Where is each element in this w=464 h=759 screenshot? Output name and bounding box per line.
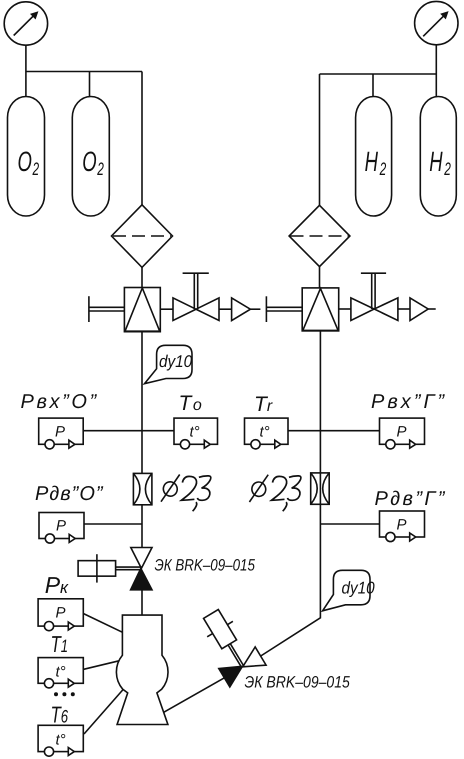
wire V2 to hand valve HV2: [339, 308, 351, 310]
svg-text:2: 2: [32, 159, 39, 179]
check valve CV1: [232, 298, 261, 321]
wire HV1 to check valve CV1: [219, 308, 232, 310]
solenoid valve EK1 (O2): [78, 548, 152, 590]
instrument T1: [38, 658, 83, 688]
flange connection left of V1: [89, 296, 125, 322]
wire filter F2 to valve V2: [319, 267, 321, 288]
orifice restrictor right: [311, 473, 330, 504]
svg-text:Рвх”Г”: Рвх”Г”: [371, 391, 447, 413]
label phi 2,3 right: [249, 475, 301, 512]
svg-text:Н: Н: [365, 146, 379, 177]
cylinder H2-2: [420, 97, 456, 217]
svg-text:Р: Р: [55, 424, 65, 441]
instrument To: [174, 418, 218, 449]
wire main O2 line down: [141, 332, 143, 548]
wire H2 manifold: [320, 73, 437, 75]
instrument Tg: [245, 418, 289, 449]
pressure regulator valve V1: [124, 288, 160, 332]
cylinder O2-2: [72, 97, 109, 217]
svg-text:Рвх”О”: Рвх”О”: [21, 391, 99, 413]
hand valve HV1: [173, 273, 219, 320]
wire Tg to Pvx"G": [288, 430, 380, 432]
filter F1: [112, 205, 173, 268]
callout dy10 right: [323, 570, 376, 611]
svg-text:2: 2: [379, 159, 386, 179]
svg-text:t°: t°: [56, 732, 66, 749]
svg-text:Р∂в”О”: Р∂в”О”: [35, 483, 104, 505]
svg-text:Р: Р: [397, 424, 407, 441]
svg-text:Р: Р: [397, 517, 407, 534]
instrument Pdv"O": [39, 513, 84, 544]
svg-text:ЭК BRK–09–015: ЭК BRK–09–015: [155, 557, 256, 575]
instrument Pdv"G": [380, 511, 425, 542]
svg-text:Р: Р: [56, 605, 66, 622]
orifice restrictor left: [133, 473, 152, 504]
wire EK1 to engine: [141, 589, 143, 615]
svg-text:ЭК BRK–09–015: ЭК BRK–09–015: [245, 674, 351, 692]
instrument Pvx"G": [380, 418, 425, 449]
wire stub to cylinder O2-1: [25, 72, 27, 98]
ellipsis dots: [54, 692, 75, 696]
wire O2 manifold: [26, 71, 142, 73]
wire H2 main line down: [261, 331, 321, 656]
filter F2: [289, 205, 350, 266]
svg-text:t°: t°: [56, 664, 66, 681]
svg-text:2: 2: [97, 159, 104, 179]
hand valve HV2: [351, 273, 398, 320]
wire V1 to hand valve HV1: [160, 308, 173, 310]
wire Pk to chamber: [83, 614, 122, 633]
wire HV2 to check valve CV2: [398, 308, 410, 310]
wire Pdv"O" to main line: [84, 523, 142, 525]
check valve CV2: [410, 298, 436, 321]
solenoid valve EK2 (H2): [193, 603, 266, 687]
wire manifold down to filter F1: [141, 72, 143, 206]
svg-text:Р: Р: [56, 518, 66, 535]
wire stub to cylinder O2-2: [89, 72, 91, 98]
label phi 2,3 left: [161, 475, 211, 512]
callout dy10 left: [145, 345, 193, 383]
svg-text:Р∂в”Г”: Р∂в”Г”: [375, 488, 447, 510]
svg-text:Н: Н: [429, 146, 443, 177]
cylinder H2-1: [356, 97, 392, 217]
wire gauge-left to manifold: [25, 45, 27, 71]
svg-text:О: О: [82, 146, 96, 177]
svg-text:dy10: dy10: [159, 352, 193, 371]
wire stub to cylinder H2-2: [435, 74, 437, 97]
instrument Pk: [38, 599, 83, 631]
pressure gauge PG-left: [4, 2, 47, 45]
wire T6 to nozzle: [84, 690, 123, 734]
cylinder O2-1: [8, 97, 45, 217]
svg-text:t°: t°: [260, 424, 270, 441]
svg-text:2: 2: [444, 159, 451, 179]
flange connection left of V2: [266, 296, 302, 322]
wire Pvx"O" to To: [83, 430, 174, 432]
pressure gauge PG-right: [415, 1, 458, 44]
svg-text:dy10: dy10: [342, 579, 376, 598]
wire H2 line valve to engine: [164, 678, 225, 712]
instrument Pvx"O": [39, 418, 83, 449]
instrument T6: [38, 725, 83, 756]
wire stub to cylinder H2-1: [372, 74, 374, 97]
wire gauge-right to manifold: [435, 45, 437, 74]
engine chamber and nozzle: [116, 615, 168, 724]
svg-text:t°: t°: [190, 424, 200, 441]
wire filter F1 to valve V1: [141, 267, 143, 287]
wire T1 to chamber: [84, 661, 119, 670]
svg-text:О: О: [18, 146, 32, 177]
pressure regulator valve V2: [302, 288, 339, 331]
wire manifold down to filter F2: [319, 74, 321, 206]
wire main line to Pdv"G": [320, 523, 379, 525]
